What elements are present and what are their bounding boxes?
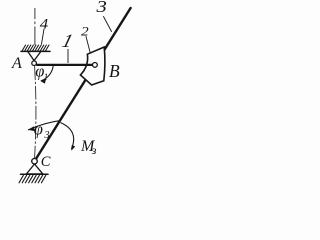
svg-text:з: з [91,143,97,157]
angle arc phi1 [41,64,53,80]
ground hatching (ceiling at A) [22,45,49,51]
leader for label 4 [42,29,45,44]
svg-text:3: 3 [95,0,106,17]
pin joint B [93,63,98,68]
support triangle at C [27,164,43,174]
ground hatching at C [19,175,46,183]
slider block 2 at B [80,47,105,85]
svg-text:4: 4 [40,16,48,32]
ground line at C [21,173,49,175]
leader for label 3 [104,17,112,32]
svg-text:B: B [109,61,120,81]
svg-text:2: 2 [81,24,89,39]
svg-text:3: 3 [44,130,50,141]
node centerline top (frame 4 axis) [34,8,36,44]
svg-text:1: 1 [44,73,49,83]
svg-text:A: A [11,55,22,72]
pin joint A [32,61,37,66]
svg-text:φ: φ [34,120,43,139]
svg-text:C: C [41,154,51,170]
angle arc phi3 [29,121,60,130]
leader for label 1 [67,49,69,62]
arrowhead phi1 [41,79,47,84]
pin joint C [32,158,38,164]
ceiling line at A [21,50,50,52]
arrowhead phi3 [28,126,34,131]
leader for label 2 [86,36,90,52]
node centerline A-C axis [35,67,36,158]
link 3 line [35,8,131,161]
support triangle at A [28,52,41,61]
moment arrow M3 arc [61,123,74,149]
arrowhead M3 [71,145,75,151]
link 1 bar [37,64,92,66]
